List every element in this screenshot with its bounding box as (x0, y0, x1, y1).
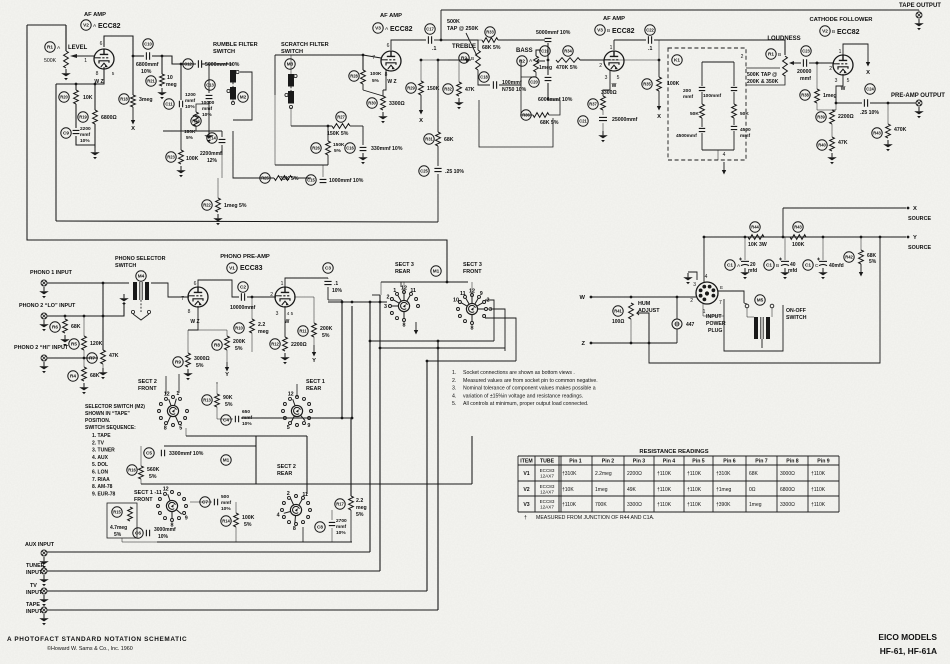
terminal PRE-AMP OUTPUT (916, 100, 922, 106)
ref R29 (406, 83, 416, 93)
ref M3 (285, 59, 295, 69)
svg-text:R2: R2 (519, 59, 525, 64)
svg-text:1: 1 (84, 58, 87, 64)
svg-text:12AX7: 12AX7 (540, 473, 554, 478)
svg-text:ECC83: ECC83 (240, 265, 263, 272)
resistor R30 3300 (381, 96, 386, 110)
wire (235, 502, 237, 513)
switch contact scratch M3 (285, 74, 297, 109)
svg-text:FRONT: FRONT (134, 497, 153, 503)
junction (547, 59, 550, 62)
svg-text:Pin 2: Pin 2 (602, 459, 615, 465)
wire (140, 479, 142, 484)
switch wafer SECT 2 REAR (277, 491, 312, 532)
ref R36 (521, 110, 531, 120)
svg-text:TAPE OUTPUT: TAPE OUTPUT (899, 3, 941, 9)
wire (94, 124, 96, 148)
switch wafer SECT 2 FRONT (158, 391, 189, 432)
ref R39 (816, 112, 826, 122)
tube triode V3B (604, 51, 624, 71)
svg-text:C25: C25 (420, 169, 428, 174)
svg-text:RUMBLE FILTER: RUMBLE FILTER (213, 42, 258, 48)
svg-text:meg: meg (356, 505, 367, 511)
svg-text:3000mmf: 3000mmf (154, 527, 176, 533)
tube ref V1 (227, 263, 237, 273)
capacitor C24 .25 (864, 99, 867, 107)
resistor R17 2.2meg (349, 496, 354, 510)
junction (426, 360, 429, 363)
ref R43 (872, 128, 882, 138)
wire (290, 55, 292, 74)
ground selector (123, 294, 125, 298)
svg-text:M5: M5 (757, 298, 764, 303)
svg-text:1000mmf 10%: 1000mmf 10% (329, 178, 364, 184)
wire (362, 126, 364, 145)
ref R20 (59, 92, 69, 102)
wire to V1B grid (247, 296, 276, 298)
svg-text:2: 2 (387, 295, 390, 301)
svg-text:5%: 5% (149, 474, 157, 480)
svg-text:C1: C1 (766, 263, 772, 268)
svg-text:PHONO 1 INPUT: PHONO 1 INPUT (30, 270, 73, 276)
ref R15 (112, 507, 122, 517)
ref R42 (844, 252, 854, 262)
resistor R9 3000 (186, 353, 191, 367)
ground below R21 (161, 88, 163, 92)
svg-text:3meg: 3meg (139, 97, 153, 103)
svg-text:V1: V1 (523, 471, 529, 477)
svg-text:†110K: †110K (657, 487, 672, 493)
svg-text:5. DOL: 5. DOL (92, 462, 108, 468)
svg-text:12AX7: 12AX7 (540, 504, 554, 509)
loudness ground arrow (723, 162, 725, 170)
svg-text:meg: meg (258, 329, 269, 335)
ground R22 (217, 214, 219, 218)
svg-text:Y: Y (225, 372, 229, 378)
svg-text:Pin 1: Pin 1 (569, 459, 582, 465)
wire X to Y rail (782, 208, 784, 237)
svg-text:10%: 10% (221, 506, 231, 512)
junction (440, 39, 443, 42)
ground tape output (918, 19, 920, 23)
svg-text:Socket connections are shown a: Socket connections are shown as bottom v… (463, 370, 575, 376)
svg-text:7. RIAA: 7. RIAA (92, 477, 110, 483)
wire wiper node (438, 59, 448, 61)
svg-text:200K: 200K (320, 326, 333, 332)
wire switch to coil (747, 308, 754, 317)
svg-text:R41: R41 (614, 309, 622, 314)
wire V1B plate (285, 278, 328, 288)
wire (478, 39, 482, 41)
svg-text:†110K: †110K (811, 487, 826, 493)
resistor R2A bass (534, 56, 539, 72)
wire V3B cathode (603, 70, 610, 96)
resistor R11 200K (312, 323, 317, 337)
svg-text:REAR: REAR (277, 471, 292, 477)
svg-text:R14: R14 (222, 519, 230, 524)
junction (630, 296, 633, 299)
capacitor C12 5000mmf (198, 60, 201, 68)
wire sect2f stub 1 (178, 374, 180, 393)
svg-text:RESISTANCE READINGS: RESISTANCE READINGS (639, 449, 708, 455)
wire sect3r pin2 stub (372, 294, 380, 296)
svg-text:AF AMP: AF AMP (380, 13, 402, 19)
capacitor loudness cap 200mmf (699, 87, 705, 90)
resistor R10 2.2meg (250, 319, 255, 333)
svg-text:C: C (815, 263, 819, 269)
svg-text:100Ω: 100Ω (612, 319, 624, 325)
capacitor C20 6000mmf (545, 77, 552, 80)
wire (860, 237, 862, 250)
wire bus y484 (141, 483, 472, 485)
svg-text:R33: R33 (486, 30, 494, 35)
wire treble tap diagonal (466, 33, 477, 56)
svg-text:4: 4 (723, 152, 726, 158)
svg-text:Nominal tolerance of component: Nominal tolerance of component values ma… (463, 386, 596, 392)
svg-text:C5: C5 (146, 451, 152, 456)
svg-text:V2: V2 (83, 23, 89, 28)
junction (379, 301, 382, 304)
svg-text:PLUG: PLUG (708, 328, 722, 334)
tube ref V2 (81, 20, 91, 30)
input power plug socket (696, 282, 718, 304)
svg-text:C14: C14 (208, 136, 216, 141)
resistor R35 100K (657, 77, 662, 91)
svg-text:330mmf 10%: 330mmf 10% (371, 146, 403, 152)
svg-text:†110K: †110K (687, 487, 702, 493)
svg-text:3000Ω: 3000Ω (780, 471, 795, 477)
svg-text:V3: V3 (523, 502, 529, 508)
svg-text:3300Ω: 3300Ω (780, 502, 795, 508)
svg-text:100K: 100K (667, 81, 680, 87)
wire (471, 282, 473, 296)
svg-text:10: 10 (453, 298, 459, 304)
X arrow R35 (658, 91, 660, 106)
wire (602, 123, 604, 131)
svg-text:SWITCH: SWITCH (281, 49, 303, 55)
svg-text:SHOWN IN “TAPE”: SHOWN IN “TAPE” (85, 411, 130, 417)
wire (918, 10, 920, 12)
svg-text:3: 3 (835, 78, 838, 84)
junction (658, 59, 661, 62)
svg-text:W: W (580, 295, 586, 301)
ref R32 (443, 84, 453, 94)
svg-text:50K: 50K (740, 111, 749, 117)
wire plug to switch (718, 291, 744, 303)
wire vertical x103 (102, 283, 104, 350)
ref C8 (315, 522, 325, 532)
svg-text:10%: 10% (336, 530, 346, 536)
wire to R18 (132, 56, 134, 95)
svg-text:EICO MODELS: EICO MODELS (878, 632, 937, 642)
X arrow V2B (867, 56, 869, 62)
resistor R28 100K (361, 70, 366, 84)
wire (817, 103, 836, 110)
svg-text:TV: TV (30, 583, 37, 589)
svg-text:5: 5 (847, 78, 850, 84)
switch wafer SECT 1 REAR (282, 391, 313, 431)
svg-text:560K: 560K (147, 467, 160, 473)
wire plug pin1 down (703, 304, 724, 316)
ground R9 (187, 369, 189, 373)
svg-text:5%: 5% (196, 363, 204, 369)
svg-text:V2: V2 (523, 487, 529, 493)
wire to C10 (133, 55, 144, 57)
capacitor C16 330mmf (360, 147, 367, 150)
ground C1C (822, 268, 824, 272)
wire to rumble filter (162, 56, 196, 64)
svg-text:20000: 20000 (797, 69, 812, 75)
capacitor C25 .25 (434, 168, 441, 171)
svg-text:47K: 47K (465, 87, 475, 93)
wire (327, 287, 329, 300)
svg-text:4: 4 (277, 513, 280, 519)
svg-text:POSITION.: POSITION. (85, 418, 111, 424)
svg-text:C18: C18 (480, 75, 488, 80)
svg-text:R8: R8 (214, 343, 220, 348)
junction (132, 55, 135, 58)
svg-text:6800Ω: 6800Ω (780, 487, 795, 493)
svg-text:B: B (776, 263, 779, 269)
wire C5 box top (164, 445, 256, 447)
svg-text:R11: R11 (299, 329, 307, 334)
svg-text:ECC83: ECC83 (540, 499, 555, 504)
ref C20 (529, 77, 539, 87)
svg-text:1meg 5%: 1meg 5% (224, 203, 247, 209)
svg-text:3300Ω: 3300Ω (389, 101, 405, 107)
wire (831, 124, 833, 137)
svg-text:R35: R35 (643, 82, 651, 87)
svg-text:5%: 5% (322, 333, 330, 339)
junction (879, 236, 882, 239)
svg-text:R38: R38 (801, 93, 809, 98)
svg-text:R43: R43 (873, 131, 881, 136)
svg-text:B: B (607, 28, 610, 34)
tube ref V3 (373, 23, 383, 33)
wire (350, 510, 352, 542)
svg-text:†110K: †110K (687, 471, 702, 477)
svg-text:TREBLE: TREBLE (452, 44, 476, 50)
svg-text:Y: Y (913, 235, 917, 241)
svg-text:R39: R39 (817, 115, 825, 120)
junction (341, 417, 344, 420)
wire hum wiper (646, 313, 649, 343)
svg-text:9: 9 (480, 291, 483, 297)
wire Y rail to plug (703, 237, 705, 282)
svg-text:SECT 3: SECT 3 (463, 262, 482, 268)
wiper arrow treble (448, 59, 471, 61)
wire phono1 to selector (47, 282, 129, 284)
wire (187, 330, 189, 353)
svg-text:2: 2 (599, 63, 602, 69)
wire Y rail (704, 236, 906, 238)
capacitor C9 2200mmf (73, 130, 80, 133)
ref R44 (750, 222, 760, 232)
svg-text:6800mmf: 6800mmf (136, 62, 159, 68)
svg-text:C10: C10 (144, 42, 152, 47)
resistor R39 2200 (830, 110, 835, 124)
svg-text:1200: 1200 (185, 92, 196, 98)
svg-text:1: 1 (176, 391, 179, 397)
wire to V3B grid (580, 59, 604, 61)
svg-text:SWITCH: SWITCH (115, 263, 136, 269)
wire vertical bus x342 (341, 300, 343, 418)
svg-text:TUNER: TUNER (26, 563, 45, 569)
wire (816, 63, 818, 89)
svg-text:5%: 5% (235, 346, 243, 352)
terminal TV INPUT (41, 588, 47, 594)
wire (717, 150, 719, 160)
switch wafer SECT 3 REAR (384, 285, 420, 328)
svg-text:8: 8 (471, 325, 474, 331)
svg-text:R10: R10 (235, 326, 243, 331)
wire (75, 84, 77, 90)
svg-text:SECT 1 -11: SECT 1 -11 (134, 490, 162, 496)
junction (369, 340, 372, 343)
ref R26 (311, 143, 321, 153)
svg-text:2200Ω: 2200Ω (838, 114, 854, 120)
svg-text:R34: R34 (564, 49, 572, 54)
pot R1 level (45, 42, 55, 52)
svg-text:Z: Z (581, 341, 585, 347)
wiper arrow hum (637, 311, 646, 315)
ground R32 (458, 98, 460, 102)
svg-text:8: 8 (403, 322, 406, 328)
svg-text:6800Ω: 6800Ω (101, 115, 117, 121)
wire loudness top (702, 61, 734, 63)
svg-text:ECC83: ECC83 (540, 484, 555, 489)
ref C25 (419, 166, 429, 176)
wire (290, 107, 292, 126)
wire (313, 337, 315, 345)
wire (217, 178, 219, 198)
svg-text:R43: R43 (794, 225, 802, 230)
wire tape (47, 609, 438, 611)
ref R31 (424, 134, 434, 144)
svg-text:R29: R29 (407, 86, 415, 91)
svg-text:Pin 4: Pin 4 (663, 459, 676, 465)
terminal AUX INPUT (41, 550, 47, 556)
svg-text:SELECTOR SWITCH (M2): SELECTOR SWITCH (M2) (85, 404, 145, 410)
svg-text:R44: R44 (751, 225, 759, 230)
ground plug (687, 273, 689, 277)
svg-text:†110K: †110K (562, 502, 577, 508)
ref C13 (205, 80, 215, 90)
wire (251, 297, 253, 319)
svg-text:11: 11 (302, 492, 308, 498)
tube triode V1B (275, 287, 295, 307)
capacitor C11 1200mmf (179, 101, 182, 107)
wire V2A cathode (56, 67, 104, 84)
svg-text:BASS: BASS (516, 48, 533, 54)
svg-text:C8: C8 (317, 525, 323, 530)
svg-text:†390K: †390K (716, 502, 731, 508)
svg-text:Pin 3: Pin 3 (633, 459, 646, 465)
svg-text:All controls at minimum, prop: All controls at minimum, proper output l… (463, 401, 588, 407)
wire sect3f pin to bus2 (487, 309, 505, 351)
svg-text:mmf: mmf (740, 133, 751, 139)
wire (255, 436, 257, 484)
svg-text:ECC82: ECC82 (837, 29, 860, 36)
svg-text:PHONO PRE-AMP: PHONO PRE-AMP (220, 254, 270, 260)
wire bus y542 (157, 541, 352, 543)
svg-text:12%: 12% (207, 158, 218, 164)
resistor R44 10K (748, 235, 764, 240)
junction (75, 83, 78, 86)
svg-text:Measured values are from socke: Measured values are from socket pin to c… (463, 378, 598, 384)
wire vertical x472 (471, 436, 473, 484)
svg-text:6. LON: 6. LON (92, 470, 109, 476)
junction (816, 62, 819, 65)
junction (64, 315, 67, 318)
junction (351, 417, 354, 420)
wire (547, 43, 549, 60)
ref R14 (221, 516, 231, 526)
wire aux (47, 551, 370, 553)
resistor R27 150K (332, 124, 350, 129)
wire lamp bottom (676, 329, 678, 343)
ref R38 (800, 90, 810, 100)
transformer power transformer (754, 317, 770, 339)
svg-text:E: E (720, 285, 723, 290)
svg-text:8. AM-78: 8. AM-78 (92, 484, 113, 490)
svg-text:2.2meg: 2.2meg (595, 471, 612, 477)
svg-text:3: 3 (605, 75, 608, 81)
ref C3 (323, 263, 333, 273)
wire (498, 39, 545, 41)
svg-text:R7: R7 (89, 356, 95, 361)
capacitor loudness cap 100mmf (731, 87, 737, 90)
ref R25 (260, 173, 270, 183)
wire (458, 60, 460, 82)
svg-text:†110K: †110K (811, 502, 826, 508)
svg-text:†110K: †110K (657, 502, 672, 508)
svg-text:150K: 150K (333, 142, 345, 148)
terminal PHONO 2 HI (41, 355, 47, 361)
wire (440, 10, 442, 40)
resistor R24 180K (194, 112, 199, 126)
svg-text:2200Ω: 2200Ω (627, 471, 642, 477)
svg-text:TUBE: TUBE (540, 459, 555, 465)
wire to preamp output (870, 102, 916, 104)
capacitor C10 6800mmf (146, 52, 149, 60)
svg-text:FRONT: FRONT (138, 386, 157, 392)
wire scratch top bus (275, 54, 363, 56)
svg-text:4 5: 4 5 (287, 311, 294, 316)
svg-text:5%: 5% (244, 522, 252, 528)
ground rumble (208, 131, 210, 135)
junction (437, 59, 440, 62)
resistor R41 100 (629, 303, 634, 319)
junction (83, 315, 86, 318)
junction (351, 301, 354, 304)
wire (521, 114, 533, 116)
svg-text:5%: 5% (334, 148, 342, 154)
capacitor C19 5000mmf (545, 38, 552, 41)
svg-text:N750 10%: N750 10% (502, 87, 527, 93)
svg-text:1.: 1. (452, 370, 456, 376)
svg-text:variation of ±15%in voltage an: variation of ±15%in voltage and resistan… (463, 393, 583, 399)
junction (446, 281, 449, 284)
Y arrow R8 (226, 362, 228, 367)
capacitor loudness cap 4500mmf b (731, 126, 737, 129)
svg-text:2: 2 (829, 66, 832, 72)
svg-text:©Howard W. Sams & Co., Inc. 19: ©Howard W. Sams & Co., Inc. 1960 (47, 645, 133, 652)
ground phono1 (43, 287, 45, 291)
svg-text:mfd: mfd (748, 268, 757, 274)
svg-text:ECC83: ECC83 (540, 468, 555, 473)
ground preamp output (918, 107, 920, 111)
